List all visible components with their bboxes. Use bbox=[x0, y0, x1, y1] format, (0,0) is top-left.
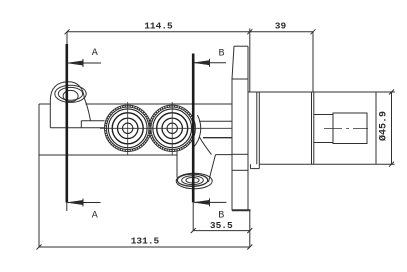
section A bottom arrow bbox=[68, 199, 101, 207]
lower boss right edge bbox=[209, 155, 216, 182]
lower boss ellipse 3 bbox=[182, 176, 204, 185]
dim extension at flange face bbox=[249, 29, 251, 93]
svg-text:131.5: 131.5 bbox=[131, 236, 160, 247]
boss dome outline bbox=[50, 82, 84, 101]
boot lip bottom bbox=[251, 168, 260, 170]
reservoir cap 1 circle r15 bbox=[112, 113, 143, 144]
flange right edge bbox=[247, 46, 249, 210]
reservoir cap 2 circle r19 bbox=[153, 109, 192, 148]
lower boss left edge bbox=[176, 150, 178, 178]
dim extension right 131.5 / 35.5 bbox=[249, 211, 251, 248]
outlet to body fillet curve bbox=[199, 137, 211, 155]
dim tick dia top bbox=[389, 90, 394, 95]
svg-text:35.5: 35.5 bbox=[210, 220, 233, 231]
svg-text:B: B bbox=[218, 48, 224, 59]
reservoir cap 1 circle r10 bbox=[118, 118, 138, 138]
outlet port boss arc bbox=[193, 115, 201, 148]
dim tick 35.5 left bbox=[191, 228, 196, 233]
body left end edge bbox=[38, 104, 40, 155]
lower boss ellipse 4 bbox=[186, 177, 199, 183]
boot lip left edge bbox=[250, 164, 252, 168]
dim tick top right bbox=[311, 29, 316, 34]
section A top arrow bbox=[68, 59, 102, 67]
dim extension at cylinder step bbox=[312, 32, 314, 92]
svg-text:A: A bbox=[92, 210, 98, 221]
boss right slant bbox=[84, 98, 90, 121]
dim extension left 35.5 bbox=[192, 202, 194, 230]
dimension line 131.5 bbox=[39, 246, 250, 248]
section B top arrow bbox=[194, 59, 226, 67]
dim tick bottom right bbox=[247, 245, 252, 250]
dimension line 35.5 bbox=[193, 230, 250, 232]
flange top edge bbox=[234, 45, 248, 47]
boss base line bbox=[50, 127, 104, 129]
cylinder top line with dim extension bbox=[248, 91, 395, 93]
pushrod end rectangle bbox=[333, 113, 367, 144]
barrel bottom line with dim extension bbox=[259, 163, 394, 165]
boss eye ring outer ellipse bbox=[55, 85, 86, 102]
barrel step vertical 1 bbox=[311, 92, 313, 164]
dimension line dia 45.9 bbox=[391, 92, 393, 164]
reservoir cap 2 circle r10 bbox=[162, 118, 182, 138]
pushrod neck bottom bbox=[314, 142, 333, 144]
body top edge right segment bbox=[86, 103, 233, 105]
horizontal centerline bbox=[100, 127, 232, 129]
reservoir cap 1 circle r5 bbox=[123, 123, 133, 133]
dim tick dia bottom bbox=[389, 162, 394, 167]
svg-text:39: 39 bbox=[275, 21, 287, 32]
dim extension at A bbox=[66, 32, 68, 52]
cylinder right end face bbox=[375, 92, 377, 164]
reservoir cap 1 knurl ticks bbox=[105, 105, 151, 151]
flange left edge bbox=[232, 46, 234, 210]
reservoir cap 1 circle r19 bbox=[108, 109, 147, 148]
boot ring vertical 2 bbox=[258, 92, 260, 169]
dim tick 35.5 right bbox=[247, 228, 252, 233]
boss eye ring inner ellipse bbox=[58, 87, 82, 100]
svg-text:A: A bbox=[92, 48, 98, 59]
reservoir cap 2 knurl ticks bbox=[149, 105, 195, 151]
reservoir cap 1 outer ring bbox=[105, 105, 151, 151]
outlet line upper bbox=[199, 120, 232, 122]
boot ring vertical 1 bbox=[256, 92, 258, 164]
reservoir cap 2 outer ring bbox=[149, 105, 195, 151]
cap1 vertical centerline bbox=[127, 102, 129, 156]
flange line y170 bbox=[232, 169, 248, 171]
cap2 vertical centerline bbox=[171, 102, 173, 156]
body bottom edge left segment bbox=[39, 154, 177, 156]
boss left side bbox=[49, 101, 51, 128]
dim tick bottom left bbox=[37, 245, 42, 250]
section line B-B bbox=[192, 54, 195, 203]
pushrod centerline bbox=[324, 127, 368, 129]
lower boss rim ellipse bbox=[176, 173, 212, 189]
section line A-A thin tail bbox=[66, 203, 68, 212]
svg-text:114.5: 114.5 bbox=[144, 21, 173, 32]
dim tick top left bbox=[65, 29, 70, 34]
flange line y154 bbox=[232, 153, 248, 155]
lower boss ellipse 2 bbox=[177, 174, 207, 186]
boss eye hole ellipse bbox=[63, 90, 78, 101]
boss step top bbox=[81, 120, 104, 122]
section B bottom arrow bbox=[194, 198, 226, 206]
barrel step vertical 2 bbox=[313, 92, 315, 164]
flange bottom edge bbox=[232, 209, 251, 211]
flange line y79 bbox=[232, 78, 248, 80]
reservoir cap 2 circle r5 bbox=[167, 123, 177, 133]
reservoir cap 2 circle r15 bbox=[157, 113, 188, 144]
dimension line 114.5 and 39 bbox=[67, 31, 313, 33]
boss step left edge bbox=[80, 121, 82, 128]
section line A-A bbox=[66, 44, 69, 203]
body top edge left segment bbox=[39, 103, 50, 105]
svg-text:Ø45.9: Ø45.9 bbox=[378, 111, 390, 141]
body bottom edge right segment bbox=[216, 154, 233, 156]
pushrod neck top bbox=[314, 114, 333, 116]
dim extension left 131.5 bbox=[38, 155, 40, 247]
outlet line lower bbox=[203, 137, 232, 139]
dim tick top mid bbox=[247, 29, 252, 34]
